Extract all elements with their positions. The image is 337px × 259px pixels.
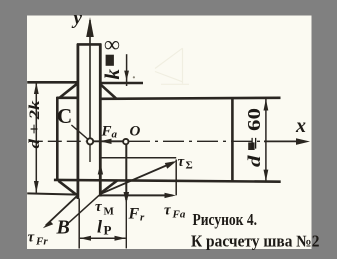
helper parallelogram top xyxy=(101,157,176,159)
d+2k dim arrowhead up xyxy=(34,82,39,94)
centerline x (dash-dot through C and O) xyxy=(29,140,268,142)
flange line h1 left xyxy=(27,81,77,84)
d+2k dim arrowhead down xyxy=(34,181,39,193)
svg-text:k: k xyxy=(100,69,124,80)
weld contour bottom h3 xyxy=(54,180,281,182)
leader from label B xyxy=(69,195,99,222)
flange line h4 left xyxy=(27,193,78,194)
weld leg k leader arrow line xyxy=(126,54,128,86)
y-axis xyxy=(89,20,91,138)
k leader arrowhead (points down) xyxy=(124,71,129,81)
svg-text:К расчету шва №2: К расчету шва №2 xyxy=(191,232,320,251)
weld top-left hypotenuse xyxy=(60,83,78,97)
tau_Fa arrowhead (points right) xyxy=(165,193,177,198)
stress tau_Fa arrow line xyxy=(101,194,173,196)
dimension d+2k line xyxy=(35,82,37,193)
weld contour top-right h2 long xyxy=(100,98,280,99)
weld contour top-left h2 xyxy=(57,97,78,100)
tau_M arrowhead (points up) xyxy=(98,163,103,174)
pin top cap xyxy=(77,43,102,46)
outer contour left wall xyxy=(56,97,59,181)
svg-text:r: r xyxy=(140,212,145,224)
svg-text:Σ: Σ xyxy=(186,160,193,172)
weld bottom-left hypotenuse xyxy=(58,181,76,195)
x-axis arrowhead xyxy=(296,138,310,145)
weld bottom-right hypotenuse xyxy=(101,180,118,193)
svg-text:F: F xyxy=(128,206,140,223)
leader from label C xyxy=(71,125,88,139)
flange line h1 right xyxy=(99,82,143,85)
svg-text:O: O xyxy=(130,124,141,140)
lP dimension line xyxy=(80,237,126,239)
svg-text:Р: Р xyxy=(104,223,112,238)
svg-text:Рисунок 4.: Рисунок 4. xyxy=(193,210,258,229)
node O circle xyxy=(123,139,128,144)
svg-text:y: y xyxy=(72,8,83,29)
y-axis below node C xyxy=(89,145,91,162)
svg-text:a: a xyxy=(112,129,118,141)
svg-text:∞: ∞ xyxy=(104,32,120,57)
F_r extension to lP xyxy=(125,200,127,248)
tau_Sigma arrowhead xyxy=(165,161,177,169)
svg-text:x: x xyxy=(295,115,306,137)
y-axis arrowhead xyxy=(86,17,94,37)
outer contour right wall xyxy=(231,98,234,183)
dimension d=60 line xyxy=(265,99,267,182)
F_r arrowhead (points down) xyxy=(124,192,130,204)
x-axis solid end xyxy=(264,140,300,142)
weld symbol: filled square xyxy=(106,55,114,66)
svg-text:B: B xyxy=(56,217,70,239)
stress tau_Fr arrow line xyxy=(46,196,77,225)
force F_r line xyxy=(125,145,127,200)
svg-text:Fr: Fr xyxy=(35,236,48,248)
lP arrowhead left xyxy=(80,236,91,241)
pin right wall xyxy=(99,44,102,197)
svg-text:Fa: Fa xyxy=(172,209,186,221)
d=60 dim arrowhead down xyxy=(264,170,269,182)
helper parallelogram right xyxy=(175,160,177,196)
weld top-right hypotenuse xyxy=(100,84,116,98)
svg-text:M: M xyxy=(104,206,115,218)
tau_Fr arrowhead xyxy=(43,221,53,229)
F_a arrowhead (points left) xyxy=(100,139,112,144)
svg-text:C: C xyxy=(57,104,72,128)
node C circle xyxy=(87,138,93,144)
svg-text:d = 60: d = 60 xyxy=(244,108,264,167)
stress tau_Sigma arrow line xyxy=(101,163,173,194)
svg-text:l: l xyxy=(97,217,102,237)
svg-text:d + 2k: d + 2k xyxy=(27,100,43,149)
equals block of d=60 xyxy=(248,142,254,150)
pin left wall xyxy=(77,44,80,199)
stress tau_M arrow line xyxy=(99,166,101,195)
lP arrowhead right xyxy=(115,236,126,241)
svg-text:F: F xyxy=(101,124,112,140)
ghost bleed-through shape (faint) xyxy=(155,48,189,84)
d=60 dim arrowhead up xyxy=(264,99,269,111)
force F_a line xyxy=(93,140,123,142)
scanned paper background xyxy=(27,16,312,250)
small dot near k arrow xyxy=(133,76,135,78)
lP extension line left xyxy=(78,199,80,249)
